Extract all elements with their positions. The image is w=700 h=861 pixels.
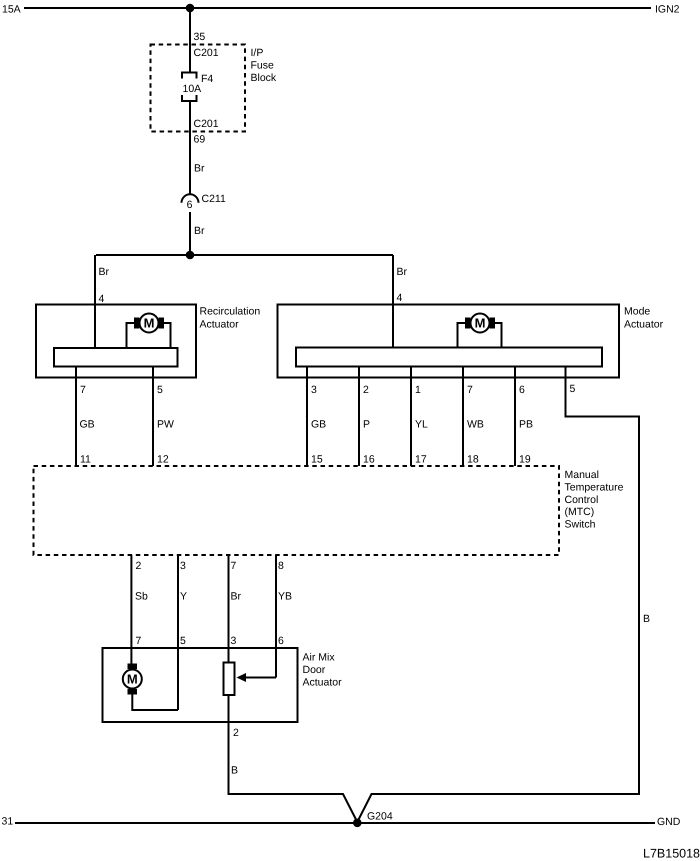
- svg-text:Br: Br: [397, 266, 408, 278]
- svg-text:C201: C201: [194, 47, 219, 59]
- svg-text:YB: YB: [278, 591, 292, 603]
- svg-text:5: 5: [570, 383, 576, 395]
- svg-text:IGN2: IGN2: [655, 4, 680, 16]
- svg-text:4: 4: [397, 292, 403, 304]
- svg-text:2: 2: [233, 727, 239, 739]
- svg-text:6: 6: [187, 199, 193, 211]
- svg-text:17: 17: [415, 454, 427, 466]
- svg-text:Actuator: Actuator: [303, 677, 343, 689]
- svg-text:Actuator: Actuator: [624, 318, 664, 330]
- svg-text:16: 16: [363, 454, 375, 466]
- svg-text:3: 3: [231, 635, 237, 647]
- svg-text:11: 11: [80, 454, 91, 466]
- svg-text:B: B: [643, 613, 650, 625]
- svg-text:Recirculation: Recirculation: [200, 306, 261, 318]
- svg-text:Air Mix: Air Mix: [303, 652, 336, 664]
- svg-text:GND: GND: [657, 816, 681, 828]
- svg-text:C211: C211: [202, 193, 226, 205]
- svg-text:69: 69: [194, 134, 206, 146]
- svg-text:(MTC): (MTC): [565, 506, 595, 518]
- svg-text:5: 5: [157, 384, 163, 396]
- svg-text:10A: 10A: [183, 83, 202, 95]
- svg-text:1: 1: [415, 384, 421, 396]
- svg-text:3: 3: [180, 560, 186, 572]
- svg-text:C201: C201: [194, 118, 219, 130]
- svg-text:7: 7: [467, 384, 473, 396]
- svg-text:Fuse: Fuse: [251, 60, 275, 72]
- svg-text:2: 2: [363, 384, 369, 396]
- svg-text:M: M: [144, 316, 155, 331]
- svg-text:31: 31: [2, 816, 14, 828]
- svg-text:L7B15018: L7B15018: [643, 847, 700, 861]
- svg-text:Br: Br: [194, 225, 205, 237]
- svg-text:F4: F4: [201, 73, 213, 85]
- svg-text:5: 5: [180, 635, 186, 647]
- svg-text:PW: PW: [157, 419, 174, 431]
- svg-text:WB: WB: [467, 419, 484, 431]
- svg-text:M: M: [127, 672, 138, 687]
- svg-text:15A: 15A: [2, 4, 21, 16]
- svg-text:15: 15: [311, 454, 323, 466]
- svg-text:Mode: Mode: [624, 306, 650, 318]
- svg-text:7: 7: [136, 635, 142, 647]
- svg-text:Switch: Switch: [565, 519, 596, 531]
- svg-text:GB: GB: [311, 419, 326, 431]
- svg-text:Actuator: Actuator: [200, 318, 240, 330]
- svg-text:7: 7: [231, 560, 237, 572]
- svg-text:M: M: [475, 316, 486, 331]
- svg-text:8: 8: [278, 560, 284, 572]
- svg-text:35: 35: [194, 31, 206, 43]
- svg-text:Br: Br: [99, 266, 110, 278]
- svg-text:19: 19: [519, 454, 531, 466]
- svg-text:7: 7: [80, 384, 86, 396]
- svg-text:6: 6: [278, 635, 284, 647]
- svg-text:GB: GB: [80, 419, 95, 431]
- svg-text:2: 2: [136, 560, 142, 572]
- svg-text:Manual: Manual: [565, 469, 599, 481]
- svg-text:Control: Control: [565, 494, 599, 506]
- svg-text:3: 3: [311, 384, 317, 396]
- svg-text:Door: Door: [303, 664, 326, 676]
- svg-text:YL: YL: [415, 419, 428, 431]
- svg-text:P: P: [363, 419, 370, 431]
- svg-text:Br: Br: [231, 591, 242, 603]
- svg-text:4: 4: [99, 293, 105, 305]
- svg-text:Y: Y: [180, 591, 187, 603]
- svg-text:Sb: Sb: [135, 591, 148, 603]
- svg-text:I/P: I/P: [251, 47, 264, 59]
- svg-text:PB: PB: [519, 419, 533, 431]
- svg-text:12: 12: [157, 454, 169, 466]
- svg-text:Block: Block: [251, 72, 277, 84]
- svg-text:Br: Br: [194, 163, 205, 175]
- svg-text:18: 18: [467, 454, 479, 466]
- svg-text:Temperature: Temperature: [565, 481, 624, 493]
- svg-text:6: 6: [519, 384, 525, 396]
- svg-text:G204: G204: [367, 811, 393, 823]
- svg-text:B: B: [231, 765, 238, 777]
